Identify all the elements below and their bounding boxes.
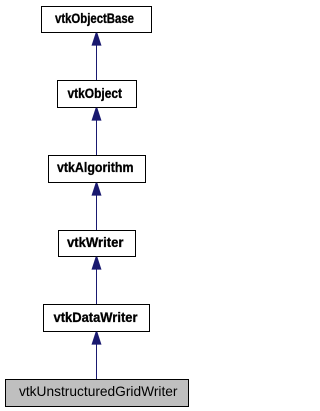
wire vtkObject to vtkObjectBase	[96, 45, 98, 80]
arrowhead to vtkObject	[92, 108, 102, 121]
arrowhead to vtkAlgorithm	[92, 183, 102, 196]
svg-text:vtkAlgorithm: vtkAlgorithm	[57, 160, 134, 175]
node vtkWriter box	[59, 231, 136, 257]
wire vtkDataWriter to vtkWriter	[96, 269, 98, 304]
svg-text:vtkDataWriter: vtkDataWriter	[54, 310, 139, 325]
arrowhead to vtkWriter	[92, 257, 102, 270]
wire vtkWriter to vtkAlgorithm	[96, 195, 98, 230]
node vtkUnstructuredGridWriter box (highlighted)	[6, 380, 189, 407]
node vtkObjectBase box	[42, 7, 152, 33]
inheritance diagram for vtkUnstructuredGridWriter	[0, 0, 192, 411]
wire vtkUnstructuredGridWriter to vtkDataWriter	[96, 344, 98, 379]
svg-text:vtkObjectBase: vtkObjectBase	[55, 11, 134, 26]
wire vtkAlgorithm to vtkObject	[96, 120, 98, 155]
node vtkObject box	[58, 81, 137, 108]
arrowhead to vtkDataWriter	[92, 332, 102, 345]
svg-text:vtkUnstructuredGridWriter: vtkUnstructuredGridWriter	[19, 384, 178, 399]
svg-text:vtkObject: vtkObject	[68, 86, 123, 101]
node vtkAlgorithm box	[49, 156, 146, 183]
arrowhead to vtkObjectBase	[92, 33, 102, 46]
node vtkDataWriter box	[44, 305, 150, 332]
svg-text:vtkWriter: vtkWriter	[67, 235, 124, 250]
